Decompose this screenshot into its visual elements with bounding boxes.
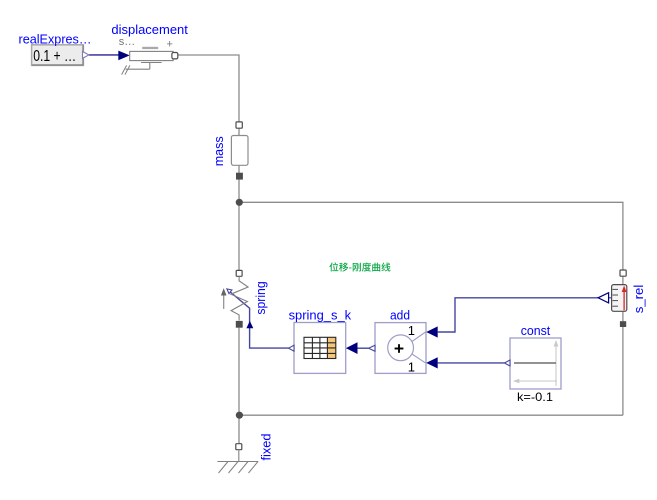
add inner line to u1 (412, 332, 426, 342)
svg-text:spring_s_k: spring_s_k (289, 308, 352, 322)
fixed ground line (217, 461, 258, 463)
connector displacement.flange square (172, 53, 178, 59)
connector add.u2 filled triangle (426, 357, 438, 368)
svg-text:s…: s… (119, 36, 136, 48)
annotation text (green CJK) (329, 262, 390, 271)
wire spring.flange_b to node B to fixed.flange (238, 328, 240, 444)
displacement support lines (141, 62, 162, 64)
svg-text:spring: spring (254, 281, 268, 314)
fixed hatches (219, 462, 259, 474)
s_rel output stub (608, 297, 611, 299)
connector fixed.flange open square (236, 444, 242, 450)
svg-text:displacement: displacement (111, 23, 188, 37)
svg-text:s_rel: s_rel (632, 285, 646, 314)
component add (mirrored Add block) (369, 323, 438, 375)
const block border (510, 338, 561, 389)
connector s_rel.s_rel open triangle (598, 293, 609, 303)
const value line (514, 362, 556, 364)
const y axis (555, 346, 557, 387)
component s_rel (relative position sensor) (598, 270, 627, 327)
connector spring_s_k.y open triangle (289, 345, 294, 351)
component displacement (position source) (118, 36, 177, 74)
add plus (395, 348, 404, 350)
s_rel ticks (612, 289, 618, 306)
arrowhead on wire at spring.k (227, 289, 232, 294)
connector spring.flange_a open square (236, 270, 242, 276)
spring grey arrow shaft (223, 295, 225, 309)
displacement support hatches (122, 65, 127, 74)
svg-text:add: add (390, 309, 410, 323)
s_rel body (612, 285, 627, 312)
component spring_s_k (CombiTable1D mirrored) (289, 323, 358, 374)
wire node A to s_rel and down to bottom bus (239, 202, 623, 415)
table icon orange column (327, 337, 335, 358)
fixed stem (238, 450, 240, 462)
svg-text:k=-0.1: k=-0.1 (517, 390, 553, 404)
connector s_rel.flange_a open square (620, 270, 626, 276)
svg-text:fixed: fixed (260, 434, 274, 461)
junction node B (236, 412, 243, 419)
add circle (388, 335, 414, 361)
spring zigzag (231, 276, 248, 320)
junction node A (236, 199, 243, 206)
svg-text:0.1 + …: 0.1 + … (33, 48, 76, 65)
connector s_rel.flange_b filled square (620, 321, 626, 327)
s_rel red arrow (623, 292, 625, 311)
svg-text:mass: mass (212, 136, 226, 166)
displacement top bar (142, 47, 158, 49)
connector displacement.s_ref input triangle (118, 51, 129, 61)
connector realExpression.y (output triangle) (83, 52, 89, 59)
svg-text:const: const (521, 324, 551, 338)
add inner line to u2 (412, 354, 426, 363)
connector mass.flange_a open square (236, 122, 242, 128)
component const (Constant mirrored) (505, 338, 562, 389)
wire spring_s_k.y to spring.k input (228, 290, 288, 348)
spring input connector k (filled triangle) (246, 321, 253, 328)
component fixed (217, 444, 258, 473)
svg-text:1: 1 (408, 360, 415, 375)
connector spring.flange_b filled square (236, 321, 243, 328)
mass body (231, 136, 248, 166)
wire s_rel.s_rel to add.u1 (438, 298, 599, 332)
connector spring_s_k.u filled triangle (346, 342, 358, 354)
displacement body (130, 51, 173, 60)
component mass (231, 122, 248, 180)
connector const.y open triangle (505, 360, 511, 366)
wire node B to right vertical (239, 414, 623, 416)
block realExpression (32, 45, 84, 66)
spring grey arrow head (221, 288, 227, 295)
component spring (variable stiffness) (221, 270, 248, 327)
svg-text:realExpres…: realExpres… (19, 32, 92, 46)
wire displacement.flange to mass and down to spring.flange_a (178, 55, 239, 270)
wire realExpression.y to displacement.s_ref (89, 54, 119, 56)
svg-text:+: + (167, 39, 173, 51)
table icon grid (304, 337, 336, 358)
connector add.u1 filled triangle (426, 326, 438, 337)
add block border (375, 323, 426, 374)
wire add.y to spring_s_k.u (358, 347, 369, 349)
spring_s_k block border (294, 323, 346, 374)
svg-text:1: 1 (408, 323, 415, 338)
connector mass.flange_b filled square (236, 173, 243, 180)
wire const.y to add.u2 (438, 362, 505, 364)
connector add.y open triangle (369, 345, 375, 351)
const x axis (519, 380, 558, 382)
